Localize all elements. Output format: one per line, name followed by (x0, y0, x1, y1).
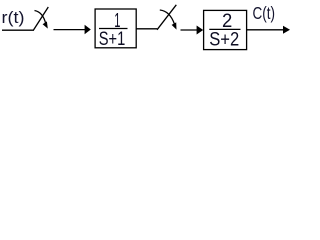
svg-text:S+1: S+1 (99, 29, 126, 50)
svg-text:S+2: S+2 (209, 30, 239, 51)
svg-text:r(t): r(t) (2, 8, 25, 27)
svg-text:C(t): C(t) (253, 3, 276, 23)
